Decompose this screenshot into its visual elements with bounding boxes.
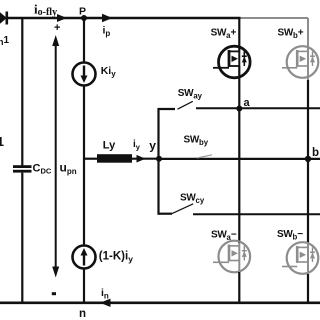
svg-text:1: 1 bbox=[0, 135, 4, 149]
svg-text:b: b bbox=[312, 147, 319, 159]
wire: a-leg mid (SWa+ to SWa- region, through node a) bbox=[238, 66, 240, 243]
svg-text:n1: n1 bbox=[0, 35, 10, 47]
wire: a row rail from node a to right edge bbox=[240, 107, 320, 109]
wire: y column vertical connecting switch rows bbox=[157, 108, 159, 215]
capacitor C_DC bbox=[13, 165, 32, 172]
wire: middle vertical between current sources bbox=[83, 86, 85, 246]
switch SWay bbox=[158, 101, 240, 109]
svg-text:SWb−: SWb− bbox=[277, 229, 303, 242]
wire: left branch down to capacitor bbox=[21, 17, 23, 166]
svg-text:Ly: Ly bbox=[103, 140, 116, 152]
wire: a-phase leg top (P rail to SWa+) bbox=[238, 18, 240, 51]
svg-text:y: y bbox=[149, 138, 156, 152]
svg-text:(1-K)iy: (1-K)iy bbox=[99, 251, 133, 264]
wire: bottom rail (net n) bbox=[0, 301, 320, 304]
inductor Ly bbox=[97, 154, 132, 163]
wire: b-leg bottom to n rail bbox=[307, 274, 309, 303]
wire: node P down to current source Ki_y bbox=[83, 18, 85, 62]
transistor SWa- (MOSFET with body diode, inactive/gray) bbox=[213, 241, 250, 273]
switch SWby (closed) on y-b rail bbox=[159, 155, 320, 159]
node P junction dot bbox=[81, 15, 87, 21]
wire: gray top segment feeding SWb+ leg bbox=[241, 17, 309, 19]
wire: b-phase leg top gray (to SWb+) bbox=[307, 18, 309, 51]
node a junction dot bbox=[236, 106, 242, 112]
transistor SWb+ (MOSFET with body diode, inactive/gray) bbox=[282, 46, 318, 80]
arrow i_n on bottom rail (pointing left) bbox=[100, 299, 111, 307]
wire: top rail from diode to node P and onward (net P) bbox=[7, 17, 241, 20]
label - (u_pn negative) bbox=[52, 292, 56, 295]
arrow i_o-fly on top rail bbox=[57, 14, 67, 22]
svg-text:SWa−: SWa− bbox=[211, 230, 237, 243]
transistor SWa+ (MOSFET with body diode, active/black) bbox=[213, 46, 250, 78]
switch SWcy bbox=[159, 204, 320, 215]
arrow i_p on top rail bbox=[102, 14, 113, 22]
svg-text:n: n bbox=[79, 308, 86, 320]
wire: b-leg mid (SWb+ to SWb-, through node b) bbox=[307, 80, 309, 244]
svg-text:a: a bbox=[244, 97, 251, 109]
svg-text:SWb+: SWb+ bbox=[278, 28, 304, 41]
diode Dfwn1 (partially cut at left edge) bbox=[0, 10, 8, 26]
svg-text:SWa+: SWa+ bbox=[211, 28, 237, 41]
wire: inductor branch from P-n column to node y bbox=[83, 158, 98, 160]
transistor SWb- (MOSFET with body diode, inactive/gray) bbox=[282, 242, 318, 274]
current source (1-K)i_y bbox=[73, 246, 96, 269]
wire: capacitor bottom to n rail bbox=[21, 173, 23, 303]
node y junction dot bbox=[156, 156, 162, 162]
wire: current source to node n bbox=[83, 269, 85, 304]
wire: inductor to node y with arrow i_y bbox=[132, 155, 159, 163]
node b junction dot bbox=[305, 156, 311, 162]
current source Ki_y bbox=[73, 63, 96, 86]
voltage arrow u_pn (double headed) bbox=[52, 35, 59, 278]
wire: a-leg bottom to n rail bbox=[238, 272, 240, 303]
svg-text:+: + bbox=[54, 22, 60, 34]
svg-text:P: P bbox=[79, 6, 86, 18]
